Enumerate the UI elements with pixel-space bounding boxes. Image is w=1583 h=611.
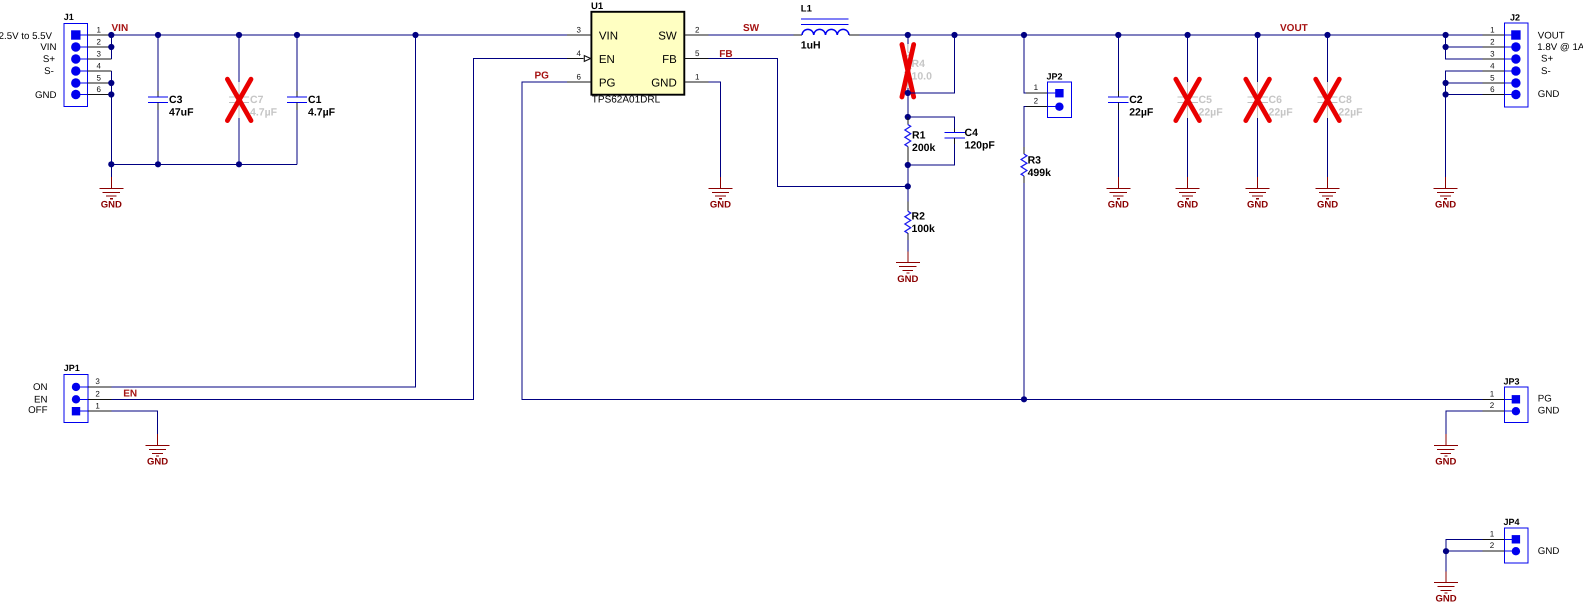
svg-text:47uF: 47uF (169, 106, 194, 118)
wire EN from JP1 to U1 (111, 59, 567, 400)
ground at U1 (708, 177, 732, 211)
wire FB from U1 to divider (708, 59, 908, 187)
svg-text:VIN: VIN (112, 23, 129, 34)
junction ground rail at C7 (236, 161, 242, 167)
U1 pin 6 PG stub (567, 72, 591, 82)
svg-text:10.0: 10.0 (912, 71, 933, 83)
IC U1 TPS62A01DRL (591, 1, 684, 106)
JP3 pin 1 stub (1482, 389, 1504, 399)
JP2 pin 1 stub (1026, 83, 1047, 93)
capacitor C6 (DNP) (1247, 35, 1293, 177)
svg-text:S-: S- (44, 66, 54, 77)
ground at JP1 (146, 434, 170, 468)
svg-text:1: 1 (1490, 25, 1495, 34)
wire R4 bypass (908, 35, 955, 93)
J2 pin stubs (1482, 35, 1504, 95)
junction J1 pin6 (108, 91, 114, 97)
wire JP4 pin2 to ground (1446, 551, 1482, 571)
svg-text:JP2: JP2 (1047, 71, 1063, 81)
junction VOUT at C2 (1115, 32, 1121, 38)
svg-text:R2: R2 (912, 210, 926, 222)
DNP cross C6 (1246, 79, 1270, 120)
svg-text:VIN: VIN (40, 42, 56, 53)
svg-text:C7: C7 (250, 94, 264, 106)
DNP cross C8 (1316, 79, 1340, 120)
capacitor C1 (287, 35, 336, 164)
svg-text:4: 4 (577, 49, 582, 58)
wire J2 pins 4-6 to ground (1446, 71, 1483, 177)
wire J2 pin6 (1446, 94, 1483, 96)
svg-text:GND: GND (651, 78, 677, 90)
wire PG from U1 to JP3 (522, 82, 1482, 399)
U1 pin 4 EN stub (567, 49, 591, 62)
wire JP3 pin2 to ground (1446, 411, 1483, 434)
junction VIN at C3 (155, 32, 161, 38)
capacitor C8 (DNP) (1317, 35, 1363, 177)
svg-text:100k: 100k (912, 223, 936, 235)
junction J1 pin5 (108, 80, 114, 86)
DNP cross C5 (1176, 79, 1200, 120)
JP2 pin 2 stub (1026, 97, 1047, 107)
svg-text:3: 3 (577, 25, 582, 34)
ground at C5 (1176, 177, 1200, 211)
wire J1 pins 1-3 tie (110, 35, 112, 59)
svg-text:1: 1 (1490, 389, 1495, 398)
svg-text:GND: GND (1538, 406, 1560, 417)
svg-text:EN: EN (34, 394, 47, 405)
svg-text:PG: PG (535, 71, 550, 82)
wire J2 pin3 (1446, 47, 1483, 59)
junction J2 pin2 (1443, 44, 1449, 50)
capacitor C5 (DNP) (1177, 35, 1223, 177)
svg-text:GND: GND (1538, 546, 1560, 557)
svg-text:GND: GND (1435, 457, 1456, 468)
resistor R3 (1021, 147, 1051, 399)
svg-text:22µF: 22µF (1199, 106, 1224, 118)
junction J1 pin2 (108, 44, 114, 50)
svg-text:5: 5 (96, 73, 101, 82)
svg-text:GND: GND (897, 274, 918, 285)
ground at C2 (1106, 177, 1130, 211)
wire VIN branch to JP1 (111, 35, 415, 387)
svg-text:22µF: 22µF (1338, 106, 1363, 118)
svg-text:1: 1 (1034, 83, 1039, 92)
svg-text:OFF: OFF (28, 405, 47, 416)
svg-text:2: 2 (1490, 37, 1495, 46)
ground at JP3 (1434, 434, 1458, 468)
svg-text:4.7µF: 4.7µF (308, 106, 336, 118)
junction VOUT at C5 (1185, 32, 1191, 38)
wire JP4 pin1 to pin2 (1446, 539, 1482, 551)
svg-text:C1: C1 (308, 94, 322, 106)
svg-text:1: 1 (1490, 529, 1495, 538)
svg-text:PG: PG (1538, 394, 1552, 405)
U1 pin 3 VIN stub (567, 25, 591, 35)
ground at R2 (896, 251, 920, 284)
svg-text:1: 1 (695, 72, 700, 81)
svg-text:GND: GND (1435, 594, 1456, 605)
wire J2 pin5 (1446, 82, 1483, 84)
svg-text:22µF: 22µF (1269, 106, 1294, 118)
svg-text:VIN: VIN (599, 31, 618, 43)
svg-text:FB: FB (662, 54, 677, 66)
svg-text:S+: S+ (43, 54, 55, 65)
JP1 pin stubs (88, 387, 112, 411)
svg-text:JP3: JP3 (1504, 376, 1520, 386)
wire VIN rail (111, 34, 567, 36)
svg-text:2: 2 (1490, 541, 1495, 550)
ground at JP4 (1434, 571, 1458, 604)
svg-text:U1: U1 (591, 1, 604, 12)
capacitor C4 (908, 117, 996, 165)
wire J1 pins 4-6 to ground rail (110, 71, 112, 177)
svg-text:2: 2 (95, 390, 100, 399)
svg-text:J1: J1 (64, 12, 74, 22)
capacitor C3 (148, 35, 194, 164)
ground at C8 (1316, 177, 1340, 211)
svg-text:22µF: 22µF (1129, 106, 1154, 118)
resistor R2 (905, 202, 935, 252)
junction ground rail at C3 (155, 161, 161, 167)
svg-text:GND: GND (1108, 200, 1129, 211)
wire VOUT rail (860, 34, 1483, 36)
capacitor C2 (1108, 35, 1154, 177)
U1 pin 2 SW stub (684, 25, 708, 35)
svg-text:C8: C8 (1338, 94, 1352, 106)
wire U1 GND pin to ground (708, 82, 720, 177)
svg-text:GND: GND (1317, 200, 1338, 211)
svg-text:C5: C5 (1199, 94, 1213, 106)
svg-text:R3: R3 (1028, 154, 1042, 166)
svg-text:4: 4 (96, 61, 101, 70)
svg-text:3: 3 (96, 49, 101, 58)
wire R4 bottom to divider (907, 93, 909, 117)
svg-text:L1: L1 (801, 4, 813, 15)
svg-text:GND: GND (35, 90, 57, 101)
JP3 pin 2 stub (1482, 401, 1504, 411)
svg-text:GND: GND (1177, 200, 1198, 211)
ground at J1 (99, 177, 123, 211)
resistor R4 (DNP) (905, 35, 932, 93)
ground at C6 (1246, 177, 1270, 211)
svg-text:SW: SW (743, 23, 760, 34)
svg-text:VOUT: VOUT (1538, 31, 1565, 42)
junction R4 bottom (905, 90, 911, 96)
resistor R1 (905, 117, 936, 165)
svg-text:3: 3 (1490, 49, 1495, 58)
ground at J2 (1434, 177, 1458, 211)
junction J1 pin1 (108, 32, 114, 38)
connector J2 (1505, 12, 1528, 107)
svg-text:1uH: 1uH (801, 40, 821, 52)
U1 pin 1 GND stub (684, 72, 708, 82)
capacitor C7 (DNP) (229, 35, 278, 164)
DNP cross R4 (902, 45, 914, 98)
junction divider bottom (905, 162, 911, 168)
svg-text:120pF: 120pF (965, 140, 996, 152)
svg-text:1.8V @ 1A: 1.8V @ 1A (1537, 42, 1583, 53)
JP4 pin 2 stub (1482, 541, 1504, 551)
svg-text:1: 1 (95, 402, 100, 411)
wire divider middle (907, 165, 909, 202)
svg-text:5: 5 (1490, 73, 1495, 82)
connector J1 (64, 12, 88, 107)
junction PG at R3 (1021, 396, 1027, 402)
svg-text:5: 5 (695, 49, 700, 58)
svg-text:200k: 200k (912, 142, 936, 154)
svg-text:EN: EN (599, 54, 615, 66)
svg-text:SW: SW (658, 31, 677, 43)
wire SW to L1 (708, 34, 793, 36)
svg-text:J2: J2 (1510, 12, 1520, 22)
junction VIN at C7 (236, 32, 242, 38)
junction VOUT at J2 (1443, 32, 1449, 38)
svg-text:GND: GND (710, 200, 731, 211)
junction ground rail at J1 (108, 161, 114, 167)
JP4 pin 1 stub (1482, 529, 1504, 539)
junction FB tap (905, 183, 911, 189)
svg-text:R4: R4 (912, 58, 926, 70)
junction divider top (905, 114, 911, 120)
svg-text:4.7µF: 4.7µF (250, 106, 278, 118)
junction J2 pin6 (1443, 91, 1449, 97)
svg-text:C4: C4 (965, 127, 979, 139)
svg-text:JP1: JP1 (64, 363, 80, 373)
DNP cross C7 (227, 79, 251, 120)
junction VOUT at JP2 (1021, 32, 1027, 38)
svg-text:C6: C6 (1269, 94, 1283, 106)
svg-text:VOUT: VOUT (1280, 23, 1308, 34)
junction VOUT at C8 (1324, 32, 1330, 38)
junction VIN branch (412, 32, 418, 38)
wire VOUT to JP2 pin1 (1024, 35, 1030, 93)
inductor L1 (794, 4, 860, 52)
svg-text:4: 4 (1490, 61, 1495, 70)
connector JP2 (1047, 71, 1072, 117)
svg-text:6: 6 (96, 85, 101, 94)
wire input ground rail (111, 163, 297, 165)
wire JP1 OFF to ground (111, 411, 157, 434)
J1 pin stubs (88, 35, 112, 95)
svg-text:JP4: JP4 (1504, 517, 1520, 527)
connector JP4 (1504, 517, 1528, 563)
svg-text:2.5V to 5.5V: 2.5V to 5.5V (0, 31, 53, 42)
svg-text:GND: GND (101, 200, 122, 211)
svg-text:GND: GND (1538, 89, 1560, 100)
svg-text:GND: GND (147, 457, 168, 468)
wire J2 pins 1-2 tie (1446, 35, 1483, 47)
svg-text:6: 6 (577, 72, 582, 81)
junction J2 pin5 (1443, 80, 1449, 86)
svg-text:2: 2 (1034, 97, 1039, 106)
junction VOUT at R4 bypass (951, 32, 957, 38)
svg-text:6: 6 (1490, 85, 1495, 94)
svg-text:1: 1 (96, 25, 101, 34)
connector JP1 (64, 363, 88, 423)
svg-text:TPS62A01DRL: TPS62A01DRL (592, 95, 661, 106)
wire JP2 pin2 to R3 (1024, 107, 1026, 147)
svg-text:2: 2 (96, 37, 101, 46)
svg-text:PG: PG (599, 78, 616, 90)
svg-text:EN: EN (123, 388, 137, 399)
U1 pin 5 FB stub (684, 49, 708, 59)
svg-text:2: 2 (1490, 401, 1495, 410)
junction VOUT at C6 (1255, 32, 1261, 38)
svg-text:GND: GND (1435, 200, 1456, 211)
junction VOUT at R4 (905, 32, 911, 38)
svg-text:R1: R1 (912, 130, 926, 142)
svg-text:ON: ON (33, 382, 48, 393)
junction VIN at C1 (294, 32, 300, 38)
svg-text:499k: 499k (1028, 167, 1052, 179)
svg-text:S-: S- (1541, 66, 1551, 77)
svg-text:GND: GND (1247, 200, 1268, 211)
svg-text:C2: C2 (1129, 94, 1143, 106)
svg-text:2: 2 (695, 25, 700, 34)
svg-text:S+: S+ (1541, 54, 1553, 65)
svg-text:C3: C3 (169, 94, 183, 106)
svg-text:3: 3 (95, 377, 100, 386)
connector JP3 (1504, 376, 1528, 422)
junction JP4 (1443, 548, 1449, 554)
